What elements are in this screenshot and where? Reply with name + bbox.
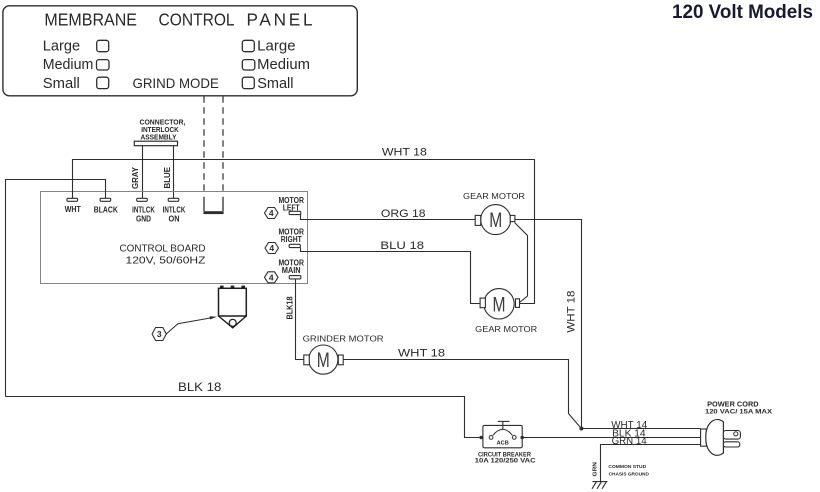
svg-text:COMMON STUD: COMMON STUD [608, 464, 646, 470]
grinder motor [303, 334, 384, 375]
circuit breaker ACB [479, 421, 524, 447]
svg-text:120 Volt Models: 120 Volt Models [672, 2, 813, 23]
svg-text:Medium: Medium [43, 57, 94, 73]
svg-text:POWER CORD: POWER CORD [707, 401, 759, 408]
wire gear motor 1 to gear motor 2 [515, 223, 528, 303]
svg-text:ACB: ACB [497, 441, 509, 447]
checkbox large left [97, 40, 109, 51]
svg-text:4: 4 [269, 272, 274, 282]
wire BLUE vertical [173, 146, 175, 199]
checkbox medium left [97, 60, 110, 70]
svg-text:GRN: GRN [593, 462, 599, 477]
leader line callout 3 [166, 317, 214, 334]
svg-text:M: M [317, 349, 330, 372]
terminal INTLCK ON [168, 198, 179, 201]
dashed ribbon wire right [222, 96, 224, 191]
svg-text:120 VAC/ 15A MAX: 120 VAC/ 15A MAX [705, 408, 773, 415]
terminal WHT [67, 198, 78, 201]
hexagon callout 3 [152, 328, 166, 341]
svg-text:BLK 18: BLK 18 [178, 382, 221, 394]
svg-text:GRAY: GRAY [130, 167, 140, 189]
svg-text:CONTROL BOARD: CONTROL BOARD [120, 243, 206, 255]
gear motor 1 [463, 191, 525, 235]
wire BLK18 motor main vertical [296, 279, 304, 360]
svg-text:ON: ON [169, 214, 180, 223]
svg-text:CHASIS GROUND: CHASIS GROUND [609, 471, 650, 477]
svg-text:BLUE: BLUE [162, 167, 172, 189]
hexagon callout 4 (motor left) [265, 208, 279, 219]
ribbon connector block [203, 211, 223, 214]
svg-text:4: 4 [269, 208, 274, 218]
checkbox small left [97, 77, 109, 88]
power cord plug [701, 420, 741, 456]
hexagon callout 4 (motor main) [265, 272, 279, 283]
svg-text:PANEL: PANEL [247, 9, 313, 29]
svg-text:BLACK: BLACK [94, 206, 118, 215]
svg-text:Medium: Medium [257, 57, 310, 73]
chassis ground symbol [592, 482, 608, 489]
connector interlock assembly bar [134, 141, 177, 146]
connector interlock assembly label [140, 117, 186, 141]
checkbox medium right [242, 60, 255, 70]
membrane control panel outline [3, 6, 357, 96]
svg-text:WHT 18: WHT 18 [566, 291, 578, 333]
svg-text:INTLCK: INTLCK [132, 206, 155, 215]
svg-text:BLU 18: BLU 18 [380, 240, 424, 252]
control board outline [41, 192, 308, 284]
wire ORG 18 [301, 215, 476, 220]
svg-text:ASSEMBLY: ASSEMBLY [141, 133, 177, 142]
svg-text:ORG 18: ORG 18 [381, 208, 426, 220]
svg-text:WHT: WHT [65, 205, 81, 214]
wire gear motor 1 to WHT down-run [515, 220, 582, 429]
svg-text:10A 120/250 VAC: 10A 120/250 VAC [475, 458, 537, 465]
wire GRN 14 [601, 445, 701, 482]
svg-text:RIGHT: RIGHT [281, 235, 302, 244]
svg-text:GRINDER MOTOR: GRINDER MOTOR [303, 334, 384, 344]
terminal BLACK [100, 198, 111, 201]
wire GRAY vertical [142, 146, 144, 199]
svg-text:GRIND MODE: GRIND MODE [133, 75, 219, 91]
svg-text:GEAR MOTOR: GEAR MOTOR [463, 191, 525, 201]
svg-text:Large: Large [257, 38, 295, 54]
svg-text:GND: GND [136, 214, 151, 223]
relay component under board [219, 286, 247, 328]
svg-text:BLK18: BLK18 [286, 296, 295, 319]
svg-text:CONTROL: CONTROL [159, 9, 235, 29]
svg-text:WHT 18: WHT 18 [398, 348, 445, 360]
svg-text:GEAR MOTOR: GEAR MOTOR [475, 324, 537, 334]
gear motor 2 [475, 289, 537, 334]
svg-text:3: 3 [157, 329, 162, 339]
checkbox small right [242, 77, 254, 88]
svg-text:MAIN: MAIN [282, 266, 301, 275]
terminal INTLCK GND [137, 198, 148, 201]
svg-text:M: M [493, 293, 506, 316]
wire BLACK loop (left side) [6, 180, 106, 397]
svg-text:WHT 18: WHT 18 [382, 146, 427, 158]
terminal motor main [289, 276, 301, 279]
hexagon callout 4 (motor right) [265, 243, 279, 254]
svg-text:4: 4 [269, 243, 274, 253]
svg-text:INTLCK: INTLCK [163, 206, 186, 215]
wire grinder motor WHT 18 [343, 360, 581, 429]
svg-text:MEMBRANE: MEMBRANE [44, 9, 137, 29]
svg-text:Small: Small [257, 76, 293, 92]
wire BLK 18 bottom run [6, 397, 482, 438]
wire WHT 18 top run [73, 160, 535, 304]
terminal motor left [289, 211, 301, 214]
checkbox large right [242, 40, 254, 51]
svg-text:GRN 14: GRN 14 [612, 436, 647, 447]
ribbon connector solid tails [203, 197, 205, 211]
svg-text:Large: Large [43, 38, 80, 54]
wire BLU 18 [301, 248, 481, 304]
svg-text:Small: Small [43, 76, 80, 92]
wire WHT 14 [582, 428, 701, 430]
terminal motor right [289, 244, 300, 247]
junction dot WHT [579, 427, 583, 431]
svg-text:M: M [489, 209, 502, 232]
wire BLK 14 [522, 437, 700, 439]
dashed ribbon wire left [203, 96, 205, 191]
svg-text:120V, 50/60HZ: 120V, 50/60HZ [126, 255, 207, 267]
